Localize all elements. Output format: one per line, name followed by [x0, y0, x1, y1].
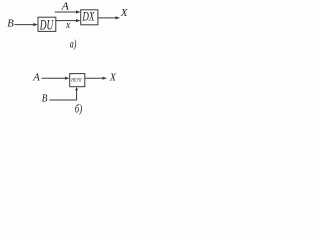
svg-text:B: B [7, 17, 14, 29]
svg-text:б): б) [75, 102, 82, 116]
svg-text:A: A [61, 1, 70, 13]
svg-text:X: X [120, 7, 129, 19]
svg-text:а): а) [70, 37, 77, 51]
svg-text:DX: DX [82, 9, 96, 23]
svg-text:B: B [42, 93, 48, 105]
svg-text:x: x [65, 20, 70, 31]
svg-text:НЕУП: НЕУП [71, 78, 82, 83]
svg-text:X: X [109, 72, 117, 84]
svg-text:DU: DU [39, 17, 54, 33]
svg-text:A: A [32, 72, 40, 84]
